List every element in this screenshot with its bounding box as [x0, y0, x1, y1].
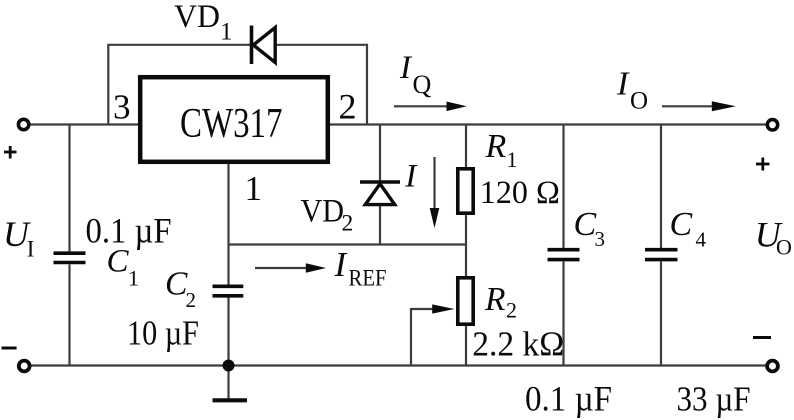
svg-text:1: 1: [507, 147, 518, 172]
svg-text:2: 2: [186, 288, 197, 312]
svg-text:CW317: CW317: [180, 100, 283, 147]
svg-text:R: R: [484, 281, 505, 318]
svg-text:O: O: [776, 235, 792, 260]
svg-text:2: 2: [339, 87, 357, 127]
svg-text:1: 1: [220, 19, 233, 46]
svg-text:4: 4: [696, 228, 707, 252]
svg-text:Q: Q: [413, 70, 432, 99]
svg-text:2.2 kΩ: 2.2 kΩ: [472, 325, 564, 364]
svg-text:120 Ω: 120 Ω: [480, 175, 560, 211]
svg-text:C: C: [574, 206, 597, 243]
svg-text:O: O: [630, 87, 648, 114]
svg-text:I: I: [616, 66, 630, 103]
svg-text:I: I: [27, 237, 35, 262]
svg-text:R: R: [485, 128, 507, 165]
svg-text:C: C: [670, 206, 693, 243]
svg-text:C: C: [107, 243, 130, 279]
svg-text:2: 2: [342, 210, 354, 236]
svg-text:2: 2: [506, 298, 517, 323]
svg-text:VD: VD: [174, 0, 220, 35]
svg-text:VD: VD: [301, 194, 345, 230]
svg-text:I: I: [399, 50, 413, 86]
svg-text:I: I: [404, 159, 418, 195]
svg-text:1: 1: [128, 266, 139, 291]
svg-text:3: 3: [113, 87, 131, 126]
svg-text:3: 3: [595, 227, 606, 251]
svg-text:REF: REF: [349, 266, 387, 291]
svg-text:10 µF: 10 µF: [127, 314, 199, 353]
svg-text:0.1 µF: 0.1 µF: [525, 378, 612, 418]
svg-text:33 µF: 33 µF: [677, 379, 751, 418]
svg-text:1: 1: [245, 169, 263, 208]
